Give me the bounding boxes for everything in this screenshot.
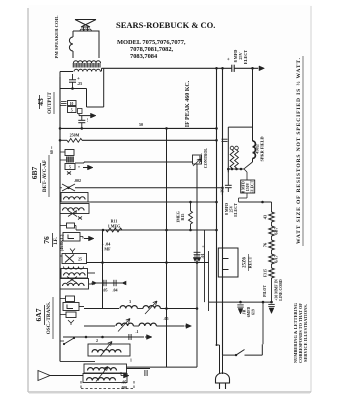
svg-text:ELECT: ELECT [243, 50, 248, 64]
svg-text:ELECT: ELECT [251, 180, 255, 193]
svg-text:PM SPEAKER COIL: PM SPEAKER COIL [54, 16, 59, 59]
svg-text:WATT SIZE OF RESISTORS NOT SPE: WATT SIZE OF RESISTORS NOT SPECIFIED IS … [295, 57, 302, 244]
svg-text:43: 43 [36, 98, 45, 106]
svg-text:.002: .002 [74, 178, 81, 183]
svg-text:1MEG: 1MEG [176, 211, 181, 223]
svg-text:3: 3 [129, 299, 131, 304]
svg-text:6B7: 6B7 [30, 167, 39, 180]
svg-text:7083,7084: 7083,7084 [130, 53, 158, 60]
svg-text:.04: .04 [113, 288, 118, 293]
svg-text:5: 5 [69, 166, 71, 170]
svg-text:OUTPUT: OUTPUT [47, 92, 53, 114]
svg-text:ELECT: ELECT [233, 203, 238, 217]
svg-text:76: 76 [42, 236, 51, 244]
svg-text:.05: .05 [122, 380, 127, 385]
svg-text:LINE CORD: LINE CORD [279, 279, 283, 301]
svg-text:JR: JR [243, 309, 247, 314]
svg-text:5: 5 [71, 109, 73, 113]
svg-text:1: 1 [130, 359, 132, 363]
svg-text:10: 10 [70, 102, 74, 106]
svg-text:25: 25 [78, 258, 82, 262]
svg-text:CONTROL: CONTROL [203, 148, 208, 169]
svg-text:6A7: 6A7 [274, 254, 279, 262]
svg-text:.1: .1 [136, 329, 139, 334]
svg-text:DET- AVC-AF: DET- AVC-AF [42, 160, 48, 192]
svg-text:+16: +16 [220, 189, 225, 195]
svg-text:6A7: 6A7 [34, 308, 43, 321]
svg-text:6MFD: 6MFD [247, 306, 251, 317]
svg-text:SPKR FIELD: SPKR FIELD [260, 136, 265, 161]
svg-text:1 MEG: 1 MEG [108, 224, 121, 229]
svg-text:SERVICE ILLUSTRATIONS.: SERVICE ILLUSTRATIONS. [303, 304, 308, 362]
svg-text:F315: F315 [264, 269, 268, 277]
svg-text:400: 400 [121, 385, 127, 390]
svg-text:150V: 150V [246, 183, 250, 192]
svg-text:619: 619 [252, 309, 256, 315]
svg-text:RECT: RECT [248, 256, 253, 268]
svg-text:SEARS-ROEBUCK & CO.: SEARS-ROEBUCK & CO. [116, 20, 215, 30]
svg-text:OSC.-TRANS.: OSC.-TRANS. [46, 301, 52, 334]
svg-text:R15: R15 [180, 214, 185, 221]
svg-text:PILOT: PILOT [263, 285, 267, 297]
svg-text:6B7: 6B7 [274, 227, 279, 235]
svg-text:.05: .05 [103, 288, 108, 293]
svg-text:50: 50 [139, 122, 143, 127]
svg-text:60 ∼: 60 ∼ [50, 145, 54, 154]
svg-text:IF PEAK 460 KC.: IF PEAK 460 KC. [185, 80, 191, 127]
svg-text:7078,7081,7082,: 7078,7081,7082, [130, 46, 174, 53]
svg-text:+30 MMF IN: +30 MMF IN [275, 279, 279, 301]
svg-text:250M: 250M [70, 133, 80, 138]
svg-text:.25: .25 [77, 81, 82, 86]
svg-text:2: 2 [96, 338, 98, 343]
svg-text:MODEL 7075,7076,7077,: MODEL 7075,7076,7077, [117, 39, 186, 46]
svg-text:+: + [227, 57, 232, 60]
svg-text:8 MFD: 8 MFD [242, 181, 246, 193]
